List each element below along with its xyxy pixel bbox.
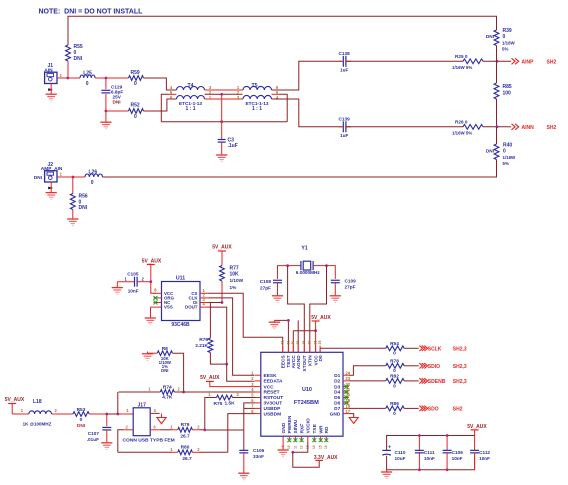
wire mid vertical [221, 94, 223, 139]
wire R39 to node [496, 46, 498, 62]
capacitor C106 [239, 448, 264, 473]
transformer T5 [237, 83, 279, 112]
svg-text:VCC: VCC [264, 384, 275, 390]
wire R77 to DI [221, 281, 223, 303]
capacitor C139 [339, 117, 352, 139]
svg-text:DOUT: DOUT [185, 305, 198, 310]
node J2/L26 [72, 176, 75, 179]
ground C3 [216, 155, 227, 162]
svg-text:3V3OUT: 3V3OUT [264, 401, 283, 407]
wire J17 pin2 [118, 430, 133, 453]
wire T5 pin 4 to C139 [272, 99, 342, 127]
svg-text:C105: C105 [127, 272, 139, 277]
node J1/L25 [66, 77, 69, 80]
svg-text:R25 0: R25 0 [455, 54, 468, 59]
svg-text:L26: L26 [89, 170, 98, 176]
power 5V_AUX L18 [5, 397, 25, 414]
svg-text:1uF: 1uF [340, 133, 348, 138]
svg-text:D5: D5 [334, 395, 340, 401]
svg-text:AINP: AINP [522, 59, 535, 65]
power 5V_AUX VCC3 [200, 375, 255, 386]
node R74/R8 [182, 391, 185, 394]
svg-text:100: 100 [503, 91, 512, 97]
no-connect U11 NC [154, 301, 158, 305]
svg-text:SDO: SDO [428, 406, 439, 412]
capacitor C105 [117, 272, 144, 294]
svg-text:93C46B: 93C46B [171, 322, 190, 328]
node U11 VCC [149, 280, 152, 283]
svg-text:C138: C138 [339, 51, 351, 56]
svg-text:10uF: 10uF [395, 456, 406, 461]
wire R76 to EEDATA node [210, 353, 226, 365]
svg-text:L18: L18 [33, 399, 42, 405]
node bank bot C111 [418, 468, 421, 471]
svg-text:2: 2 [197, 424, 200, 429]
wire J2 pin 1 [57, 176, 73, 178]
svg-text:14: 14 [312, 445, 316, 449]
node AINP [496, 60, 499, 63]
wire R52 to T4 pin 6 [106, 99, 177, 111]
svg-text:EECS: EECS [280, 355, 286, 369]
wire DI to R76 [209, 303, 211, 339]
svg-text:3: 3 [251, 382, 254, 387]
capacitor C109 [331, 278, 356, 295]
wire C107 to J17 [107, 413, 118, 415]
svg-text:D4: D4 [334, 390, 340, 396]
svg-text:R85: R85 [503, 84, 512, 90]
wire to C108 [278, 266, 288, 279]
svg-text:5%: 5% [502, 47, 508, 52]
resistor R25 [452, 54, 483, 70]
ground TEST/AGND [269, 320, 280, 328]
wire C105 node [137, 281, 151, 283]
svg-text:SCLK: SCLK [428, 346, 442, 352]
svg-text:WR: WR [318, 425, 324, 434]
capacitor C107 [87, 414, 112, 442]
svg-text:11: 11 [293, 445, 297, 449]
svg-text:DNI: DNI [113, 100, 121, 105]
wire R25 to AINP [483, 60, 511, 62]
svg-text:FT245BM: FT245BM [294, 400, 319, 406]
svg-text:1/16W 5%: 1/16W 5% [452, 65, 472, 70]
svg-text:+: + [388, 445, 391, 451]
wire top bus [68, 16, 497, 45]
no-connect bottom pin 14 [312, 438, 316, 442]
svg-text:1/16W: 1/16W [502, 41, 516, 46]
resistor R79 [170, 422, 205, 440]
capacitor C111 [415, 436, 435, 470]
resistor R80 [170, 445, 200, 463]
ground GND17 triangle [349, 418, 358, 424]
svg-text:EESK: EESK [264, 373, 278, 379]
transformer T4 [170, 83, 212, 112]
resistor R53 [73, 407, 89, 429]
node TEST [287, 319, 290, 322]
node bank top C106 [446, 434, 449, 437]
svg-text:5V_AUX: 5V_AUX [142, 259, 162, 265]
svg-text:PWREN: PWREN [287, 415, 293, 433]
svg-text:C139: C139 [339, 117, 351, 122]
svg-text:6: 6 [251, 398, 254, 403]
svg-text:DNI: DNI [77, 423, 86, 429]
svg-text:2: 2 [251, 376, 254, 381]
ground R56 [67, 210, 78, 226]
svg-text:5V_AUX: 5V_AUX [200, 375, 220, 381]
svg-text:D2: D2 [334, 379, 340, 385]
svg-text:27pF: 27pF [260, 285, 271, 290]
svg-text:R26 0: R26 0 [455, 120, 468, 125]
svg-text:DNI: DNI [74, 56, 83, 62]
svg-text:AINN: AINN [522, 125, 535, 131]
ground C108 [272, 296, 283, 303]
svg-text:10nF: 10nF [128, 288, 139, 293]
resistor R76 [195, 337, 213, 353]
svg-text:1/16W 5%: 1/16W 5% [452, 131, 472, 136]
resistor R39 [486, 28, 516, 52]
svg-text:R75: R75 [214, 401, 223, 407]
wire XTAL to XTOUT [288, 266, 305, 353]
svg-text:R8: R8 [162, 346, 168, 352]
svg-text:28: 28 [302, 341, 306, 345]
wire J1 pin 1 [57, 77, 68, 79]
capacitor C106b [443, 436, 464, 470]
wire 3V3OUT down [244, 403, 255, 450]
node XTAL right [325, 264, 328, 267]
svg-text:26.7: 26.7 [180, 434, 190, 440]
svg-text:3.3V_AUX: 3.3V_AUX [314, 455, 338, 461]
no-connect D5 [344, 396, 348, 400]
wire J17 pin3 [150, 429, 172, 431]
no-connect D4 [344, 390, 348, 394]
wire R74 drop [117, 392, 119, 414]
capacitor C129 [101, 78, 123, 111]
svg-text:GND: GND [330, 411, 341, 417]
ground C109 [330, 296, 341, 303]
wire to L25 [68, 77, 80, 79]
ground U11 VSS [145, 307, 156, 325]
svg-text:6.0000MHz: 6.0000MHz [296, 270, 321, 275]
wire R40 top [496, 127, 498, 144]
svg-text:31: 31 [286, 341, 290, 345]
svg-text:VCCIO: VCCIO [306, 418, 312, 433]
note text [39, 9, 144, 16]
svg-text:1: 1 [21, 408, 24, 413]
svg-text:R74: R74 [163, 385, 172, 391]
svg-text:4.7K: 4.7K [162, 395, 173, 401]
power 5V_AUX R77 [212, 245, 232, 266]
svg-text:2: 2 [125, 424, 128, 429]
wire C138 to R25 [346, 60, 463, 62]
wire center bus [161, 121, 287, 123]
svg-text:4: 4 [251, 387, 254, 392]
node EEDATA [225, 363, 228, 366]
svg-text:SDIO: SDIO [428, 364, 440, 370]
connector J17 [123, 402, 175, 443]
svg-text:5V_AUX: 5V_AUX [212, 245, 232, 251]
wire D1 to R78 [349, 366, 386, 375]
svg-text:5V_AUX: 5V_AUX [311, 315, 331, 321]
wire T4-T5 row1 [205, 89, 244, 91]
ground bank [381, 470, 392, 479]
node AINN [496, 125, 499, 128]
svg-text:R76: R76 [199, 337, 208, 343]
no-connect bottom pin 12 [300, 438, 304, 442]
power 5V_AUX U10 [311, 315, 331, 331]
svg-text:1: 1 [60, 171, 63, 176]
wire GND17 [349, 414, 354, 418]
svg-text:D1: D1 [334, 373, 340, 379]
port SDO [419, 406, 462, 413]
svg-text:.1uF: .1uF [228, 143, 238, 149]
node VCCIO [291, 451, 294, 454]
no-connect U11 ORG [154, 296, 158, 300]
wire R74 to RESET [174, 391, 255, 393]
wire to L26 [73, 176, 85, 178]
svg-text:T4: T4 [187, 83, 193, 89]
resistor R40 [486, 143, 516, 167]
wire 3.3V loop [293, 452, 319, 467]
resistor R74 [119, 385, 181, 401]
node mid row2 [220, 93, 223, 96]
svg-text:DNI: DNI [79, 205, 88, 211]
resistor R55 [66, 44, 83, 62]
svg-text:SH2: SH2 [547, 59, 557, 65]
wire R55 bottom [67, 61, 69, 78]
resistor R59 [129, 70, 144, 87]
svg-text:27pF: 27pF [345, 285, 356, 290]
svg-text:0: 0 [393, 411, 396, 417]
node C129 top [105, 77, 108, 80]
wire TEST/AGND gnd [274, 320, 298, 352]
svg-text:TXE: TXE [312, 423, 318, 433]
svg-text:C111: C111 [424, 450, 435, 455]
wire T4-T5 row3 [205, 98, 244, 100]
port AINN [511, 124, 556, 131]
ground J1 [46, 84, 57, 101]
wire DI row [209, 302, 223, 304]
resistor R8 [157, 346, 172, 373]
ground C107 [101, 443, 112, 450]
node C129 bottom [105, 110, 108, 113]
capacitor C112 [470, 436, 490, 470]
wire D7 to R86 [349, 407, 386, 409]
svg-text:D6: D6 [334, 401, 340, 407]
svg-text:10nF: 10nF [479, 456, 490, 461]
svg-text:27: 27 [308, 341, 312, 345]
svg-text:R53: R53 [77, 407, 86, 413]
wire T4-T5 row2 [205, 93, 243, 95]
wire node to R59 [106, 77, 129, 79]
svg-text:1/10W: 1/10W [230, 278, 244, 283]
svg-text:1: 1 [125, 276, 128, 281]
svg-text:SDENB: SDENB [428, 379, 446, 385]
svg-text:C106: C106 [253, 448, 265, 453]
svg-text:26.7: 26.7 [182, 456, 192, 462]
ground C129 [100, 111, 111, 129]
wire R54 to SCLK [404, 347, 419, 349]
node C107 [105, 413, 108, 416]
resistor R78 [386, 359, 405, 375]
svg-text:3: 3 [153, 424, 156, 429]
resistor R77 [220, 266, 244, 291]
wire CLK to EESK [209, 298, 255, 375]
wire VCCIO to 3.3V [293, 442, 308, 453]
svg-text:RXF: RXF [299, 424, 305, 434]
ground C105 [112, 282, 123, 295]
svg-text:1K @100MHZ: 1K @100MHZ [23, 422, 52, 427]
wire T5 pin 6 to C138 [272, 61, 342, 90]
crystal Y1 [288, 246, 327, 276]
resistor R56 [70, 177, 87, 211]
node J17 pin1 [116, 413, 119, 416]
node XTAL left [286, 264, 289, 267]
wire R78 to SDIO [404, 365, 419, 367]
no-connect D6 [344, 401, 348, 405]
wire R80 to USBDM [200, 451, 228, 453]
ground C106 [238, 473, 249, 480]
svg-text:0: 0 [393, 368, 396, 374]
svg-text:R78: R78 [390, 359, 399, 365]
svg-text:AIN: AIN [44, 67, 53, 73]
resistor R75 [208, 392, 255, 407]
svg-text:10nF: 10nF [424, 456, 435, 461]
svg-text:GND: GND [281, 422, 287, 433]
node bank top C111 [418, 434, 421, 437]
power 5V_AUX bank [467, 424, 487, 435]
svg-text:USBDP: USBDP [264, 406, 282, 412]
svg-text:USBDM: USBDM [264, 411, 282, 417]
svg-text:XTIN: XTIN [308, 355, 314, 366]
capacitor C138 [339, 51, 352, 73]
svg-text:R52: R52 [131, 102, 140, 108]
svg-text:C109: C109 [345, 278, 357, 283]
inductor L25 [80, 71, 95, 87]
svg-text:D3: D3 [334, 384, 340, 390]
svg-text:0: 0 [503, 34, 506, 40]
svg-text:SH2: SH2 [547, 125, 557, 131]
svg-text:DNI: DNI [486, 34, 494, 39]
svg-text:SH2,3: SH2,3 [453, 346, 467, 352]
wire CS to EECS [209, 293, 283, 352]
svg-text:1/16W: 1/16W [503, 155, 517, 160]
wire USBDP net [205, 408, 255, 430]
node DI/R77 [221, 301, 224, 304]
svg-text:Y1: Y1 [301, 246, 307, 252]
ic U10 FT245BM [251, 341, 351, 449]
inductor L26 [85, 170, 103, 186]
svg-text:C110: C110 [395, 450, 406, 455]
svg-text:33nF: 33nF [253, 454, 264, 459]
svg-text:XTOUT: XTOUT [302, 355, 308, 371]
svg-text:0: 0 [393, 351, 396, 357]
svg-text:10K: 10K [230, 272, 240, 278]
wire R53 to C107 node [89, 413, 107, 415]
capacitor C3 [218, 138, 238, 155]
svg-text:RSTOUT: RSTOUT [264, 395, 284, 401]
svg-text:D7: D7 [334, 406, 340, 412]
eeprom U11 [151, 276, 209, 329]
svg-text:0: 0 [91, 180, 94, 186]
wire T5 pin 5 to bus [272, 94, 288, 121]
svg-text:RESET: RESET [264, 390, 280, 396]
svg-text:0: 0 [86, 81, 89, 87]
svg-text:R54: R54 [390, 341, 399, 347]
svg-text:1: 1 [148, 387, 151, 392]
wire cap bank bottom [387, 455, 475, 470]
wire R82 to SDENB [404, 380, 419, 382]
wire DOUT down [209, 307, 255, 381]
svg-text:5%: 5% [503, 161, 509, 166]
capacitor C110 [382, 445, 406, 462]
svg-text:8: 8 [251, 409, 254, 414]
power 5V_AUX U11 [142, 259, 162, 282]
wire USBDM net [228, 414, 255, 453]
no-connect bottom pin 16 [324, 438, 328, 442]
svg-text:17: 17 [346, 409, 351, 414]
capacitor C108 [260, 279, 282, 295]
svg-text:0: 0 [503, 149, 506, 155]
svg-text:U11: U11 [176, 276, 185, 282]
ground R8 [142, 352, 157, 361]
wire D0 to R54 [320, 348, 386, 352]
svg-text:SH2,3: SH2,3 [453, 364, 467, 370]
svg-text:12: 12 [300, 445, 304, 449]
svg-text:SH2,3: SH2,3 [453, 379, 467, 385]
svg-text:5V_AUX: 5V_AUX [5, 397, 25, 403]
connector J1 [44, 63, 62, 83]
svg-text:C108: C108 [260, 279, 272, 284]
svg-text:1: 1 [60, 73, 63, 78]
svg-text:1: 1 [126, 408, 129, 413]
wire to U11 VCC [151, 282, 156, 294]
svg-text:NOTE: DNI = DO NOT INSTALL: NOTE: DNI = DO NOT INSTALL [39, 9, 144, 16]
svg-text:24: 24 [346, 370, 351, 375]
node mid bus [220, 120, 223, 123]
svg-text:1: 1 [170, 424, 173, 429]
svg-text:10nF: 10nF [452, 456, 463, 461]
svg-text:2: 2 [197, 447, 200, 452]
ground J17 shield [157, 418, 166, 424]
wire D2 to R82 [349, 380, 386, 382]
node AVCC/VCC [314, 329, 317, 332]
power 3.3V_AUX [314, 455, 338, 461]
node R79/R75 [203, 429, 206, 432]
svg-text:16: 16 [324, 445, 328, 449]
port AINP [511, 58, 556, 65]
svg-text:1 : 1: 1 : 1 [252, 106, 262, 112]
resistor R85 [494, 61, 512, 99]
svg-text:1%: 1% [230, 285, 238, 290]
resistor R52 [129, 102, 144, 120]
svg-text:C107: C107 [88, 431, 100, 436]
svg-text:1: 1 [170, 447, 173, 452]
svg-text:32: 32 [281, 341, 285, 345]
svg-text:VSS: VSS [164, 305, 173, 310]
svg-text:0: 0 [80, 417, 83, 423]
svg-text:8: 8 [154, 288, 157, 293]
wire L25 to C129 node [95, 77, 106, 79]
svg-text:1uF: 1uF [340, 68, 348, 73]
svg-text:4: 4 [154, 408, 157, 413]
svg-text:L25: L25 [83, 71, 92, 77]
svg-text:DNI: DNI [161, 368, 168, 373]
svg-text:1.5K: 1.5K [225, 400, 236, 406]
svg-text:C112: C112 [479, 450, 490, 455]
svg-text:T5: T5 [251, 83, 257, 89]
wire R80 row left [118, 451, 172, 453]
svg-text:1 : 1: 1 : 1 [185, 106, 195, 112]
no-connect bottom pin 10 [287, 438, 291, 442]
